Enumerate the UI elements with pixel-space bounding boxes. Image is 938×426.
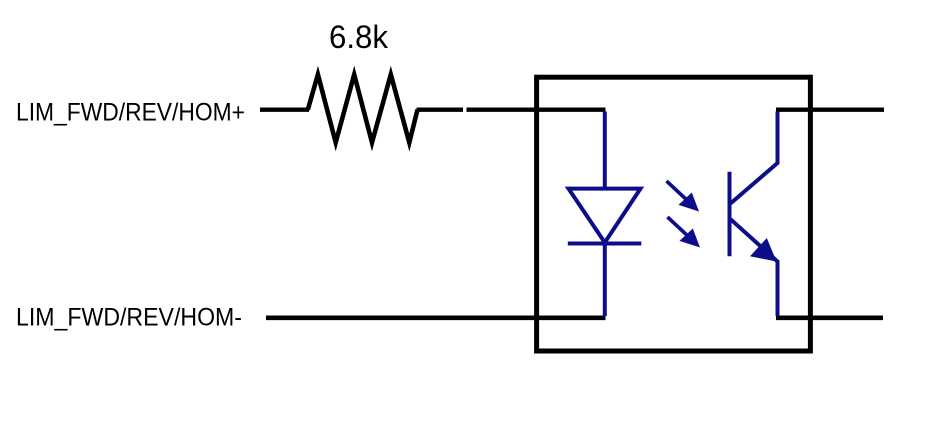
light emission arrow 1 shaft: [667, 181, 690, 202]
LED D1 cathode wire: [603, 244, 607, 317]
svg-text:LIM_FWD/REV/HOM+: LIM_FWD/REV/HOM+: [16, 99, 245, 127]
resistor 6.8k zigzag: [308, 75, 418, 143]
phototransistor Q1 emitter lead: [731, 219, 778, 316]
optocoupler U1 package box: [537, 77, 811, 351]
light emission arrow 2 shaft: [668, 217, 691, 238]
wire bottom-left segment: [266, 315, 606, 320]
wire top segment resistor to LED anode: [467, 107, 606, 111]
svg-text:LIM_FWD/REV/HOM-: LIM_FWD/REV/HOM-: [16, 304, 242, 332]
LED D1 anode wire: [603, 112, 607, 191]
phototransistor Q1 emitter arrowhead: [750, 238, 777, 262]
LED D1 triangle: [569, 189, 641, 243]
light emission arrow 2 head: [680, 229, 701, 248]
wire top-right collector output: [776, 107, 884, 111]
wire resistor right lead: [417, 107, 464, 111]
wire top-left input segment: [260, 107, 309, 111]
LED D1 cathode bar: [568, 242, 642, 246]
phototransistor Q1 collector lead: [731, 112, 778, 204]
svg-text:6.8k: 6.8k: [329, 19, 389, 55]
light emission arrow 1 head: [679, 193, 700, 212]
wire bottom-right emitter output: [776, 315, 883, 320]
phototransistor Q1 base bar: [728, 172, 732, 257]
